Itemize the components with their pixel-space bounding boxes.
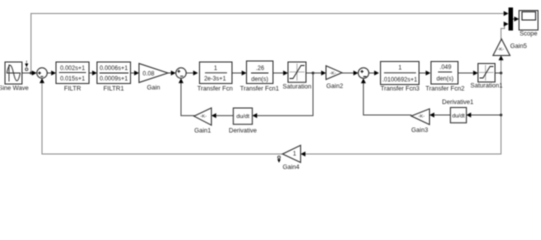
svg-text:Saturation: Saturation (283, 84, 312, 91)
svg-text:du/dt: du/dt (236, 114, 249, 120)
svg-text:-K-: -K- (418, 114, 425, 120)
svg-text:Derivative1: Derivative1 (442, 99, 474, 106)
svg-text:0.015s+1: 0.015s+1 (60, 77, 86, 83)
svg-text:Gain: Gain (147, 85, 161, 92)
svg-text:.049: .049 (440, 65, 452, 71)
svg-text:.0100692s+1: .0100692s+1 (382, 77, 418, 83)
svg-text:Transfer Fcn1: Transfer Fcn1 (240, 86, 279, 93)
svg-text:Transfer Fcn: Transfer Fcn (197, 85, 233, 92)
svg-text:FILTR: FILTR (64, 86, 81, 93)
svg-text:0.0006s+1: 0.0006s+1 (100, 66, 129, 72)
svg-text:0.002s+1: 0.002s+1 (60, 66, 86, 72)
svg-text:Sine Wave: Sine Wave (0, 85, 29, 92)
svg-text:Gain5: Gain5 (510, 43, 527, 50)
svg-text:Transfer Fcn3: Transfer Fcn3 (381, 85, 420, 92)
svg-text:Transfer Fcn2: Transfer Fcn2 (426, 85, 465, 92)
svg-text:Gain1: Gain1 (194, 127, 211, 134)
svg-text:Derivative: Derivative (229, 127, 257, 134)
svg-text:du/dt: du/dt (452, 113, 465, 119)
svg-text:Gain4: Gain4 (283, 164, 300, 171)
svg-text:Gain3: Gain3 (411, 127, 428, 134)
svg-text:-K-: -K- (498, 47, 505, 53)
svg-text:Gain2: Gain2 (326, 83, 343, 90)
svg-text:-K-: -K- (330, 70, 337, 76)
svg-text:-K-: -K- (200, 114, 207, 120)
svg-text:.26: .26 (256, 66, 265, 72)
svg-text:FILTR1: FILTR1 (103, 86, 124, 93)
svg-text:0.0009s+1: 0.0009s+1 (100, 77, 129, 83)
svg-text:den(s): den(s) (436, 77, 453, 83)
svg-text:den(s): den(s) (251, 77, 268, 83)
svg-text:Saturation1: Saturation1 (470, 83, 503, 90)
svg-text:2e-3s+1: 2e-3s+1 (204, 77, 227, 83)
svg-text:0.08: 0.08 (143, 71, 155, 77)
svg-text:Scope: Scope (520, 30, 538, 37)
